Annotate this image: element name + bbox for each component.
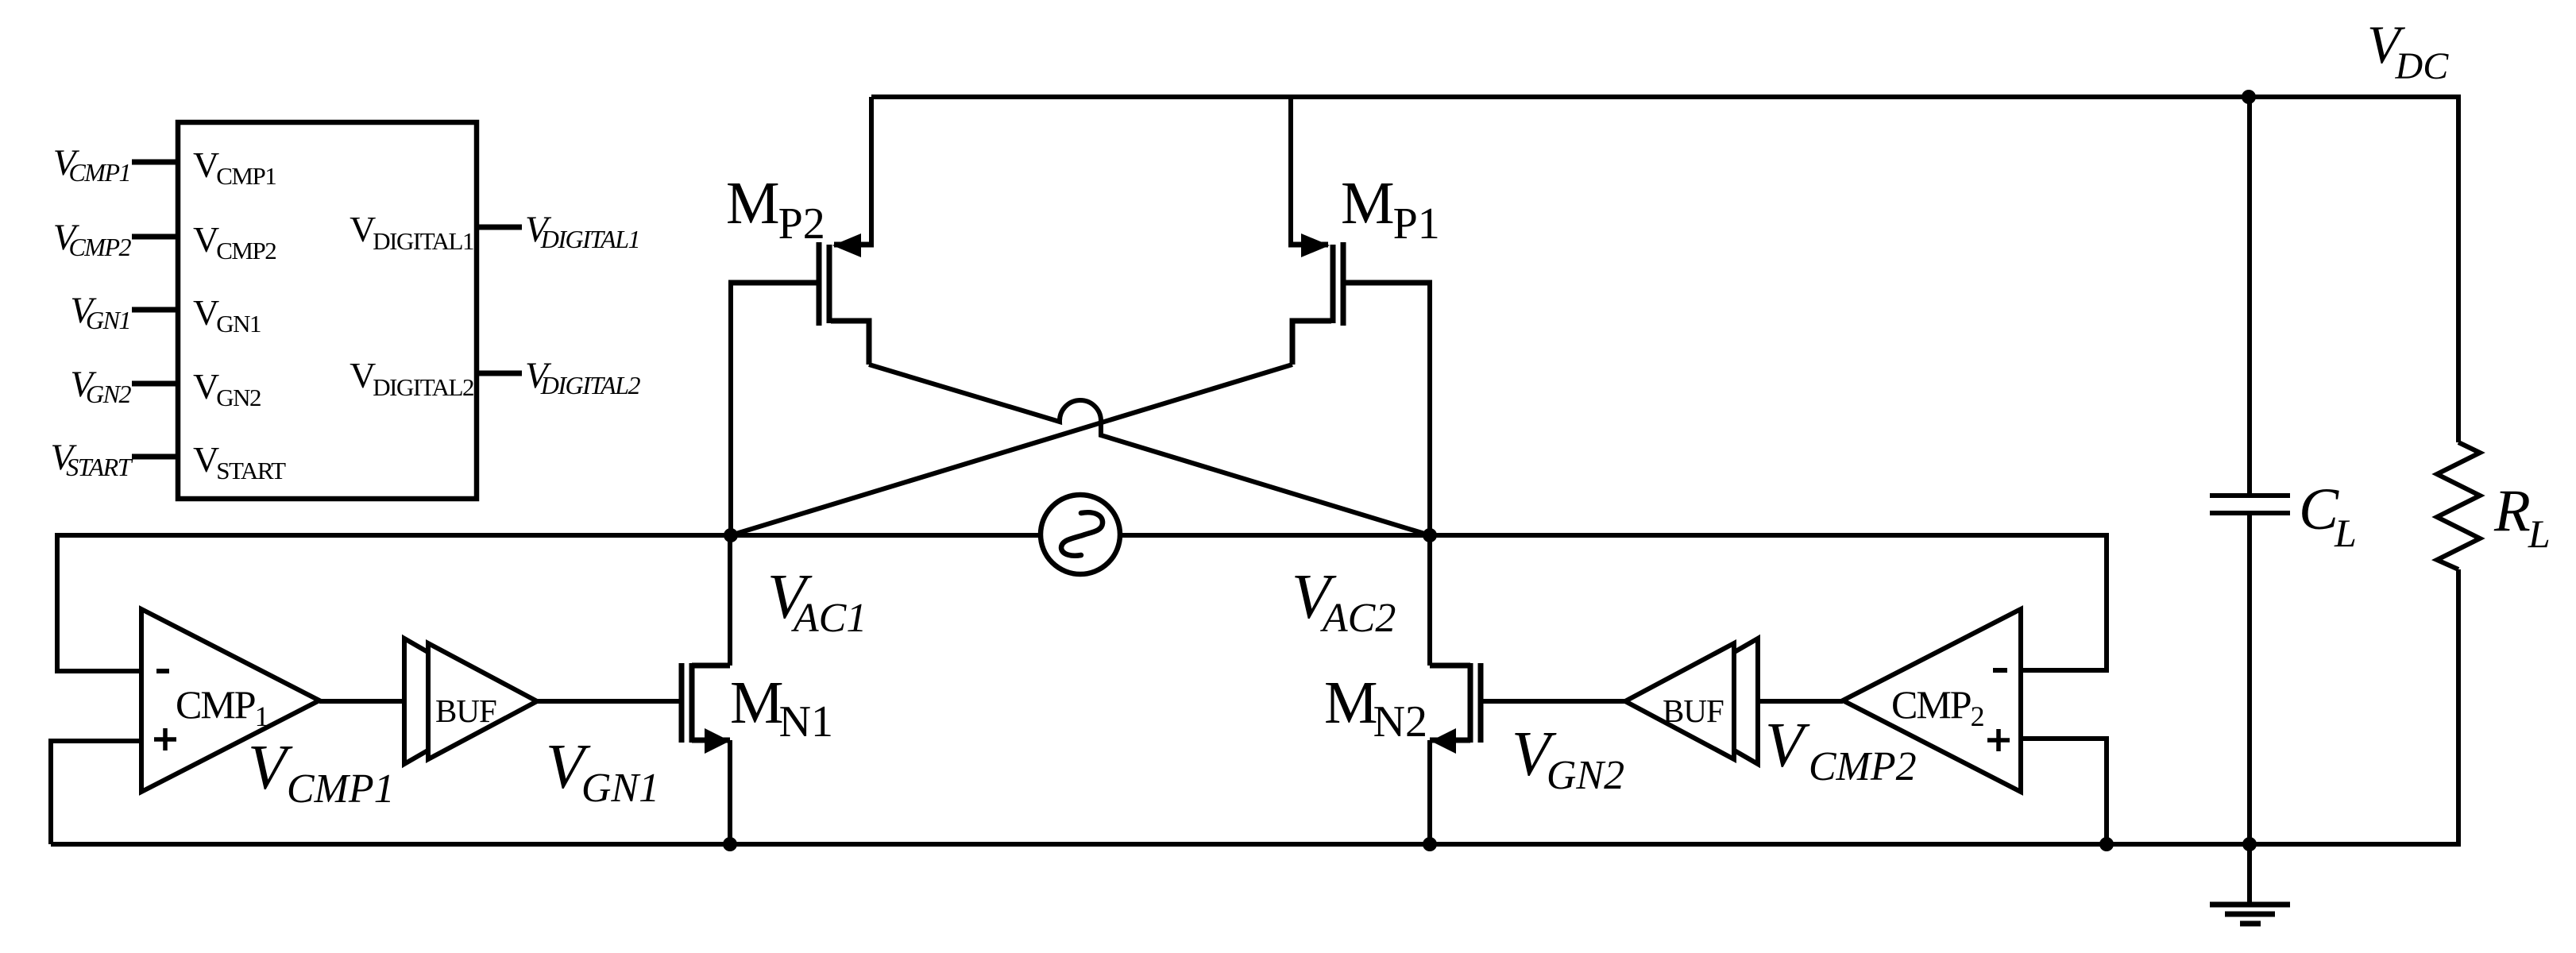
pin wire V_GN2 xyxy=(132,381,178,387)
AC source VS circle xyxy=(1041,495,1120,574)
wire MP1 source to VDC rail xyxy=(1288,97,1293,242)
digital control block U1 xyxy=(178,122,477,499)
wire MN1 drain to node VAC1 xyxy=(728,535,732,666)
wire MP2 source to VDC rail xyxy=(869,97,874,242)
transistor MP2 channel bar xyxy=(827,245,832,323)
wire MP2 gate to node VAC1 xyxy=(728,280,733,535)
buffer BUF2 back triangle xyxy=(1649,639,1758,764)
transistor MN2 source arrow xyxy=(1431,728,1456,754)
wire MN2 source to bottom rail xyxy=(1427,740,1432,844)
transistor MN1 source lead xyxy=(692,738,730,743)
svg-text:BUF: BUF xyxy=(435,693,496,729)
transistor MN1 source arrow xyxy=(705,728,730,754)
capacitor C_L plates xyxy=(2210,496,2290,513)
pin wire V_START xyxy=(132,454,178,460)
node ground rail junction xyxy=(2242,837,2257,851)
buffer BUF1 front triangle xyxy=(428,643,537,759)
wire MP1 gate to node VAC2 xyxy=(1427,280,1432,535)
transistor MN2 drain lead xyxy=(1430,663,1470,669)
wire BUF1 output to gate of MN1 xyxy=(537,699,682,704)
capacitor C_L bottom wire xyxy=(2247,515,2252,903)
node MN1 source rail junction xyxy=(723,837,737,851)
wire CMP2 plus feedback to bottom rail xyxy=(2021,739,2107,844)
comparator CMP1 xyxy=(141,609,319,792)
node VAC1 junction xyxy=(724,528,738,542)
CMP1 plus sign xyxy=(154,728,176,750)
CMP2 plus sign xyxy=(1987,729,2010,751)
transistor MP2 gate bar xyxy=(817,242,822,326)
wire BUF2 output to gate of MN2 xyxy=(1481,699,1625,704)
transistor MN2 source lead xyxy=(1430,738,1470,743)
wire MP1 drain diagonal to node VAC1 xyxy=(1292,321,1331,365)
pin wire V_DIGITAL1 xyxy=(477,225,522,230)
node VDC junction xyxy=(2242,90,2256,104)
node VAC2 junction xyxy=(1423,528,1437,542)
svg-text:BUF: BUF xyxy=(1663,693,1724,729)
resistor R_L zigzag xyxy=(2437,442,2480,569)
bottom ground rail wire xyxy=(51,569,2458,844)
wire AC source to node VAC2 xyxy=(1121,533,1430,538)
transistor MP1 channel bar xyxy=(1330,245,1336,323)
pin wire V_CMP1 xyxy=(132,160,178,165)
wire CMP1 output to BUF1 xyxy=(319,699,409,704)
wire CMP2 output to BUF2 xyxy=(1755,699,1843,704)
transistor MN2 gate bar xyxy=(1478,663,1484,743)
power rail VDC wire xyxy=(871,97,2458,442)
wire MN2 drain to node VAC2 xyxy=(1427,535,1432,666)
node MN2 source rail junction xyxy=(1423,837,1437,851)
capacitor C_L top wire xyxy=(2247,97,2252,494)
pin wire V_CMP2 xyxy=(132,234,178,240)
transistor MP1 gate bar xyxy=(1341,242,1346,326)
wire MP2 drain diagonal with hop to node VAC2 xyxy=(831,321,869,365)
node CMP2 plus rail junction xyxy=(2099,837,2114,851)
wire node VAC2 to CMP2 minus feedback xyxy=(1430,535,2107,670)
ground symbol xyxy=(2210,905,2290,924)
buffer BUF1 back triangle xyxy=(404,639,513,764)
wire CMP1 minus feedback to node VAC1 xyxy=(57,535,1041,671)
buffer BUF2 front triangle xyxy=(1625,643,1734,759)
transistor MN1 drain lead xyxy=(692,663,730,669)
transistor MP2 source arrow xyxy=(832,233,861,257)
AC source squiggle xyxy=(1061,512,1103,555)
transistor MP1 source arrow xyxy=(1301,233,1330,257)
CMP2 minus sign xyxy=(1993,668,2007,673)
transistor MN2 channel bar xyxy=(1468,663,1473,743)
transistor MN1 gate bar xyxy=(679,663,685,743)
CMP1 minus sign xyxy=(156,669,169,673)
comparator CMP2 xyxy=(1843,609,2021,792)
transistor MN1 channel bar xyxy=(689,663,695,743)
pin wire V_DIGITAL2 xyxy=(477,371,522,376)
pin wire V_GN1 xyxy=(132,307,178,313)
wire MN1 source to bottom rail xyxy=(728,740,732,844)
wire CMP1 plus feedback to bottom rail xyxy=(51,741,141,844)
